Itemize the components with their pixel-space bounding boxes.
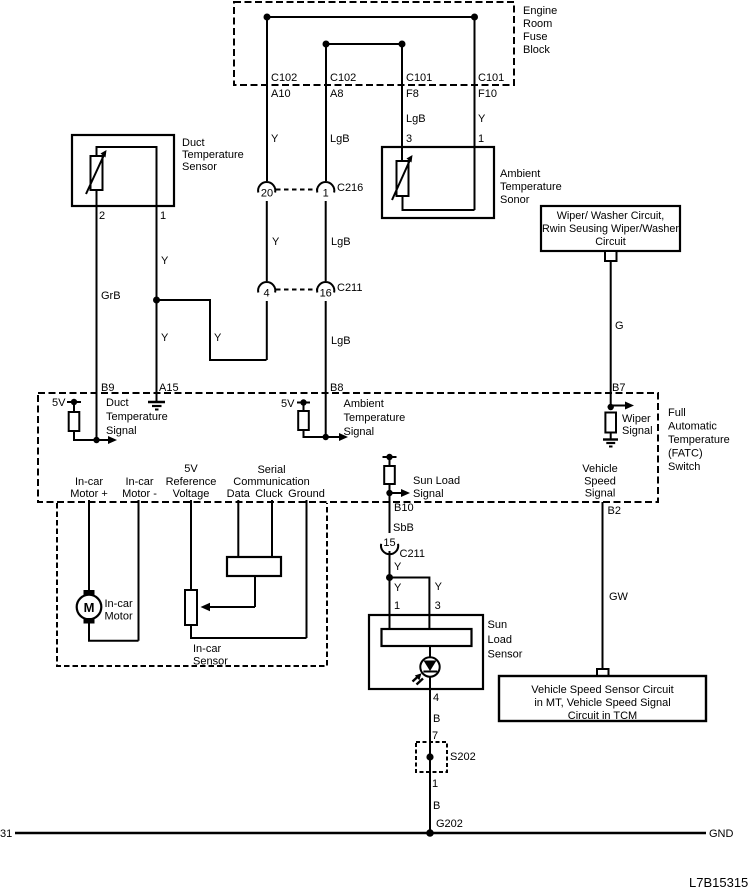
svg-text:Sonor: Sonor bbox=[500, 194, 530, 206]
wire: C102 A8 vertical (LgB) bbox=[325, 44, 327, 181]
svg-text:C101: C101 bbox=[478, 72, 504, 84]
wire: serial block to wiper arrow bbox=[254, 576, 256, 607]
sun load sensor internal block bbox=[382, 629, 472, 646]
svg-text:5V: 5V bbox=[281, 398, 295, 410]
svg-text:Load: Load bbox=[488, 634, 512, 646]
svg-text:1: 1 bbox=[394, 600, 400, 612]
svg-text:3: 3 bbox=[406, 133, 412, 145]
svg-text:Y: Y bbox=[394, 561, 402, 573]
node: junction duct signal bbox=[93, 437, 99, 443]
svg-text:A8: A8 bbox=[330, 88, 343, 100]
wire: ground bus 31 bbox=[15, 832, 706, 835]
wire: ambient sensor internal bottom link bbox=[403, 196, 475, 210]
wire: B2 GW vertical bbox=[602, 502, 604, 669]
photodiode (sun load) bbox=[413, 646, 440, 685]
wire: connector pin4 tail down bbox=[266, 301, 268, 360]
svg-text:B2: B2 bbox=[608, 505, 621, 517]
motor M (in-car motor) bbox=[77, 590, 102, 624]
thermistor (duct sensor) bbox=[86, 150, 107, 194]
svg-text:Wiper/ Washer Circuit,: Wiper/ Washer Circuit, bbox=[557, 210, 665, 222]
svg-text:4: 4 bbox=[433, 692, 439, 704]
connector C216 pin 20 (half circle) bbox=[258, 182, 275, 192]
wire: Y between connectors (left chain) bbox=[266, 201, 268, 281]
svg-text:LgB: LgB bbox=[331, 335, 351, 347]
svg-text:In-car: In-car bbox=[125, 476, 153, 488]
wire: pin3 into sensor bbox=[428, 615, 430, 629]
wire: data lead bbox=[237, 500, 239, 557]
svg-text:1: 1 bbox=[323, 188, 329, 200]
5V pull-up (sun load signal) bbox=[383, 454, 411, 497]
serial interface block bbox=[227, 557, 281, 576]
svg-text:C211: C211 bbox=[337, 282, 362, 294]
svg-text:Ground: Ground bbox=[288, 488, 325, 500]
svg-text:SbB: SbB bbox=[393, 522, 414, 534]
svg-text:Sun: Sun bbox=[488, 619, 508, 631]
wiper/washer circuit box bbox=[541, 206, 680, 251]
svg-text:(FATC): (FATC) bbox=[668, 448, 703, 460]
node: splice dot S202 bbox=[426, 753, 433, 760]
engine room fuse block (dashed box) bbox=[234, 2, 514, 85]
svg-text:Switch: Switch bbox=[668, 461, 700, 473]
svg-text:Y: Y bbox=[161, 255, 169, 267]
node: junction ambient signal bbox=[323, 434, 329, 440]
svg-text:In-car: In-car bbox=[75, 476, 103, 488]
wire: clock lead bbox=[271, 500, 273, 557]
svg-text:Duct: Duct bbox=[106, 397, 129, 409]
svg-text:Y: Y bbox=[478, 113, 486, 125]
wire: branch to pin 3 bbox=[390, 578, 430, 616]
wire: in-car motor - lead bbox=[138, 500, 140, 641]
svg-text:2: 2 bbox=[99, 210, 105, 222]
wire: duct sensor internal top link bbox=[97, 147, 157, 206]
svg-text:Sun Load: Sun Load bbox=[413, 475, 460, 487]
svg-text:Vehicle Speed Sensor Circuit: Vehicle Speed Sensor Circuit bbox=[531, 684, 673, 696]
svg-text:Y: Y bbox=[161, 332, 169, 344]
svg-text:Signal: Signal bbox=[106, 425, 137, 437]
svg-text:Voltage: Voltage bbox=[173, 488, 210, 500]
svg-text:Signal: Signal bbox=[622, 425, 653, 437]
svg-text:Wiper: Wiper bbox=[622, 413, 651, 425]
node: junction dot left of lower bus bbox=[323, 41, 330, 48]
wire: in-car motor + lead bbox=[88, 500, 90, 590]
svg-text:A10: A10 bbox=[271, 88, 291, 100]
svg-text:In-car: In-car bbox=[105, 598, 133, 610]
svg-text:Motor -: Motor - bbox=[122, 488, 157, 500]
svg-text:Communication: Communication bbox=[233, 476, 309, 488]
svg-text:Serial: Serial bbox=[257, 464, 285, 476]
ambient temperature sensor (box) bbox=[382, 147, 494, 218]
node: junction sun load signal bbox=[386, 490, 392, 496]
svg-text:Ambient: Ambient bbox=[344, 398, 384, 410]
svg-text:Speed: Speed bbox=[584, 476, 616, 488]
svg-text:Sensor: Sensor bbox=[193, 656, 228, 668]
svg-text:Data: Data bbox=[227, 488, 251, 500]
splice S202 (dashed box) bbox=[416, 742, 447, 772]
svg-text:1: 1 bbox=[478, 133, 484, 145]
svg-text:Fuse: Fuse bbox=[523, 31, 547, 43]
svg-text:F10: F10 bbox=[478, 88, 497, 100]
node: junction sun load split bbox=[386, 574, 393, 581]
ground (A15 duct temperature ground) bbox=[148, 393, 165, 410]
svg-text:1: 1 bbox=[160, 210, 166, 222]
svg-text:Temperature: Temperature bbox=[344, 412, 406, 424]
svg-text:GND: GND bbox=[709, 828, 734, 840]
wire: B9 GrB vertical bbox=[96, 206, 98, 440]
svg-text:15: 15 bbox=[383, 537, 395, 549]
node: junction G202 on ground bus bbox=[426, 829, 434, 837]
svg-text:G202: G202 bbox=[436, 818, 463, 830]
svg-text:Signal: Signal bbox=[585, 488, 616, 500]
svg-text:B: B bbox=[433, 800, 440, 812]
connector C211 pin 16 (half circle) bbox=[317, 282, 334, 292]
wire: fuse block bus upper horizontal bbox=[267, 16, 475, 18]
wire: dashed mate link C211 bbox=[276, 289, 317, 291]
svg-text:20: 20 bbox=[261, 188, 273, 200]
svg-text:Ambient: Ambient bbox=[500, 168, 540, 180]
svg-text:4: 4 bbox=[263, 288, 269, 300]
svg-text:B10: B10 bbox=[394, 502, 414, 514]
svg-text:Rwin Seusing Wiper/Washer: Rwin Seusing Wiper/Washer bbox=[542, 223, 679, 235]
connector C211 pin 15 (half circle open up) bbox=[381, 544, 398, 554]
wire: photodiode to pin 4 bbox=[429, 677, 431, 833]
svg-text:Sensor: Sensor bbox=[182, 161, 217, 173]
svg-text:7: 7 bbox=[432, 730, 438, 742]
svg-text:Duct: Duct bbox=[182, 137, 205, 149]
connector square above vehicle speed box bbox=[597, 669, 609, 677]
wire: pin1 into sensor bbox=[389, 615, 391, 629]
svg-text:Y: Y bbox=[435, 581, 443, 593]
svg-text:Temperature: Temperature bbox=[182, 149, 244, 161]
in-car unit (dashed box, open top shared with FATC bottom edge) bbox=[57, 503, 327, 666]
svg-text:Signal: Signal bbox=[344, 426, 375, 438]
connector C216 pin 1 (half circle) bbox=[317, 182, 334, 192]
sun load sensor (box) bbox=[369, 615, 483, 689]
svg-text:Cluck: Cluck bbox=[255, 488, 283, 500]
svg-text:Room: Room bbox=[523, 18, 552, 30]
wire: C102 A10 vertical (Y) bbox=[266, 17, 268, 181]
svg-text:16: 16 bbox=[320, 288, 332, 300]
node: junction dot right of lower bus bbox=[399, 41, 406, 48]
svg-text:F8: F8 bbox=[406, 88, 419, 100]
wire: ground lead bbox=[306, 500, 308, 638]
svg-text:Motor +: Motor + bbox=[70, 488, 108, 500]
svg-text:5V: 5V bbox=[184, 463, 198, 475]
wire: branch from junction to connector C211 pin 4 bbox=[157, 300, 267, 360]
wire: C101 F10 vertical (Y) to ambient sensor pin 1 bbox=[474, 17, 476, 210]
svg-text:Engine: Engine bbox=[523, 5, 557, 17]
svg-text:Temperature: Temperature bbox=[668, 434, 730, 446]
svg-text:Sensor: Sensor bbox=[488, 649, 523, 661]
svg-text:Motor: Motor bbox=[105, 611, 133, 623]
svg-text:Automatic: Automatic bbox=[668, 421, 717, 433]
svg-text:Temperature: Temperature bbox=[106, 411, 168, 423]
wire: C101 F8 vertical (LgB) to ambient sensor pin 3 bbox=[401, 44, 403, 162]
wire: potentiometer bottom to ground lead bbox=[191, 625, 307, 638]
wire: fuse block bus lower horizontal bbox=[326, 43, 402, 45]
svg-text:Y: Y bbox=[214, 332, 222, 344]
svg-text:GW: GW bbox=[609, 591, 629, 603]
wire: G vertical from wiper/washer to B7 bbox=[610, 261, 612, 407]
svg-text:GrB: GrB bbox=[101, 290, 121, 302]
svg-text:Circuit in TCM: Circuit in TCM bbox=[568, 710, 637, 722]
wire: B10 SbB vertical bbox=[389, 493, 391, 533]
svg-text:Circuit: Circuit bbox=[595, 236, 626, 248]
wire: LgB down to B8 bbox=[325, 301, 327, 437]
svg-text:B: B bbox=[433, 713, 440, 725]
svg-text:In-car: In-car bbox=[193, 643, 221, 655]
svg-text:C102: C102 bbox=[271, 72, 297, 84]
svg-text:L7B15315: L7B15315 bbox=[689, 875, 748, 890]
5V pull-up (ambient temperature signal) bbox=[281, 398, 348, 441]
svg-text:Reference: Reference bbox=[166, 476, 217, 488]
svg-text:C102: C102 bbox=[330, 72, 356, 84]
svg-text:Block: Block bbox=[523, 44, 550, 56]
svg-text:G: G bbox=[615, 320, 624, 332]
svg-text:Temperature: Temperature bbox=[500, 181, 562, 193]
svg-text:S202: S202 bbox=[450, 751, 476, 763]
thermistor (ambient sensor) bbox=[392, 155, 413, 200]
wiper signal pull-down resistor and ground bbox=[603, 402, 634, 447]
potentiometer (in-car sensor) bbox=[185, 590, 255, 625]
svg-text:Full: Full bbox=[668, 407, 686, 419]
svg-text:C216: C216 bbox=[337, 182, 363, 194]
svg-text:3: 3 bbox=[435, 600, 441, 612]
svg-text:LgB: LgB bbox=[330, 133, 350, 145]
wire: duct pin1 Y vertical to A15 bbox=[156, 206, 158, 393]
node: junction dot right of upper bus bbox=[471, 14, 478, 21]
connector square below wiper/washer box bbox=[605, 251, 617, 261]
wire: dashed mate link C216 bbox=[276, 189, 317, 191]
node: junction dot left of upper bus bbox=[264, 14, 271, 21]
svg-text:Vehicle: Vehicle bbox=[582, 463, 617, 475]
vehicle speed sensor circuit box bbox=[499, 676, 706, 721]
svg-text:LgB: LgB bbox=[406, 113, 426, 125]
wire: duct sensor pin2 lead bbox=[96, 190, 98, 206]
svg-text:LgB: LgB bbox=[331, 236, 351, 248]
wire: Y below connector 15 bbox=[389, 551, 391, 615]
svg-text:1: 1 bbox=[432, 778, 438, 790]
wire: 5V reference lead bbox=[190, 500, 192, 590]
svg-text:Y: Y bbox=[271, 133, 279, 145]
svg-text:31: 31 bbox=[0, 828, 12, 840]
svg-text:M: M bbox=[84, 600, 95, 615]
svg-text:5V: 5V bbox=[52, 397, 66, 409]
svg-text:Y: Y bbox=[272, 236, 280, 248]
node: junction on pin1 wire bbox=[153, 297, 160, 304]
svg-text:C211: C211 bbox=[400, 548, 425, 560]
wire: LgB between connectors (mid chain) bbox=[325, 201, 327, 281]
svg-text:C101: C101 bbox=[406, 72, 432, 84]
wire: motor bottom link to motor - bbox=[89, 624, 139, 641]
svg-text:in MT, Vehicle Speed Signal: in MT, Vehicle Speed Signal bbox=[534, 697, 670, 709]
duct temperature sensor (box) bbox=[72, 135, 174, 206]
svg-text:Signal: Signal bbox=[413, 488, 444, 500]
connector C211 pin 4 (half circle) bbox=[258, 282, 275, 292]
FATC switch (dashed box) bbox=[38, 393, 658, 502]
5V pull-up (duct temperature signal) bbox=[52, 397, 117, 444]
svg-text:Y: Y bbox=[394, 582, 402, 594]
